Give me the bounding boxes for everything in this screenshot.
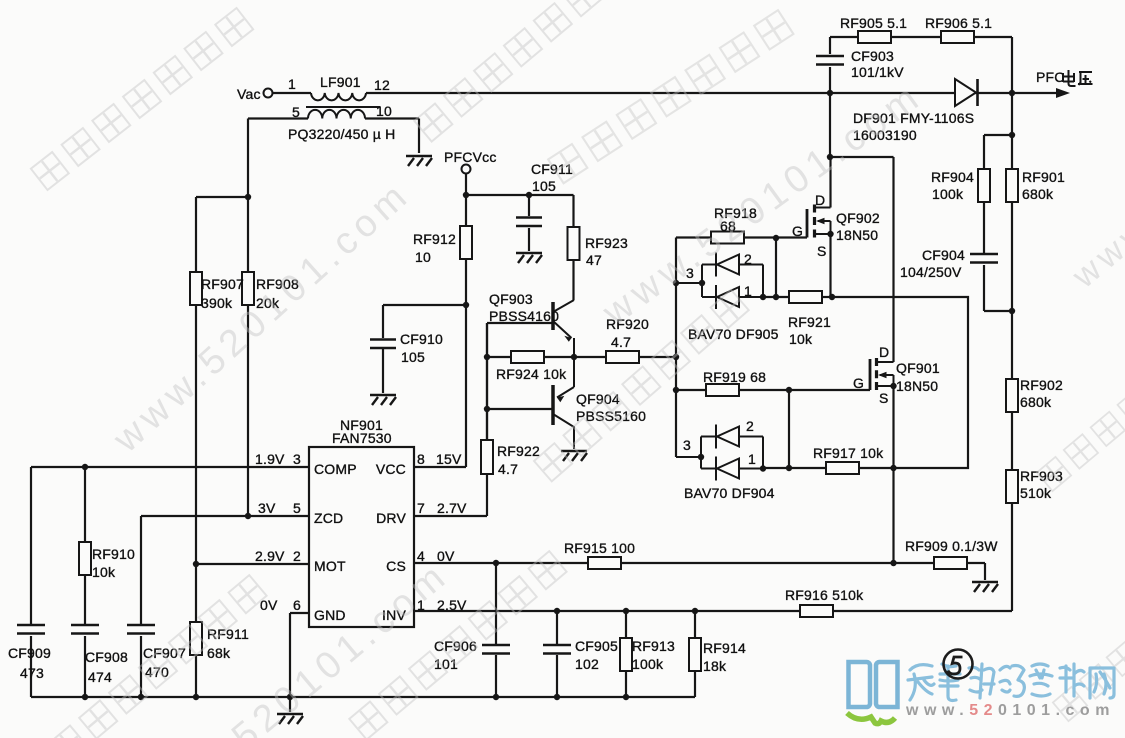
wire drive node column (675, 238, 677, 458)
resistor RF906 (941, 31, 974, 43)
wire QF902 gate column down (775, 238, 777, 298)
wire RF910/CF908 column (84, 467, 86, 624)
wire main line to drain node (829, 93, 831, 157)
wire LF901 pin10 right (365, 117, 419, 119)
wire RF914 column (694, 611, 696, 697)
wire down to QF901 drain (892, 157, 894, 362)
wire GND line pin6 (290, 612, 309, 614)
diode DF901 FMY-1106S (955, 79, 978, 106)
resistor RF908 (242, 272, 254, 305)
wire CF909 column upper (30, 467, 32, 624)
logo url text (906, 702, 1115, 720)
node CF904 branch (1009, 308, 1015, 314)
transistor QF901 18N50 MOSFET (870, 358, 894, 390)
wire drain node to QF901 drain (830, 156, 894, 158)
wire CF910 top (382, 305, 384, 338)
wire RF907 branch link (196, 196, 248, 198)
wire RF920 row to drive node (574, 356, 676, 358)
node RF912/VCC (463, 302, 469, 308)
capacitor CF905 102 (543, 645, 571, 654)
node QF901 source (890, 465, 896, 471)
resistor RF922 (481, 440, 493, 474)
PFC output arrow (1056, 88, 1070, 98)
wire QF902 source down (829, 234, 831, 297)
resistor RF905 (858, 31, 891, 43)
node DF905 pin3 tap (673, 280, 679, 286)
wire VCC line pin8 (414, 466, 466, 468)
wire CF905 column upper (556, 611, 558, 644)
node RF913 gnd (623, 694, 629, 700)
resistor RF919 (706, 384, 739, 396)
node COMP/RF910 (82, 464, 88, 470)
wire DRV line pin7 (414, 515, 487, 517)
wire QF902 source to QF901 source link (832, 297, 968, 468)
wire COMP line pin3 (31, 466, 309, 468)
wire bottom ground bus (31, 696, 695, 698)
wire CS line pin4 (414, 562, 934, 564)
wire QF901 gate column down (788, 390, 790, 468)
wire RF909 to ground (984, 563, 986, 580)
wire CF910 bottom (382, 349, 384, 393)
node DF905 pin3 (699, 280, 705, 286)
node RF904 branch (1009, 132, 1015, 138)
wire QF901 source down to CS line (892, 386, 894, 563)
wire VCC up to RF912 node (465, 305, 467, 467)
wire CF904 branch bottom (984, 310, 1012, 312)
resistor RF921 (789, 291, 822, 303)
resistor RF903 (1006, 470, 1018, 503)
node QF902 drain (827, 154, 833, 160)
wire base bias column (486, 323, 488, 441)
wire node to CF910 (383, 304, 466, 306)
wire CF908 column lower (84, 636, 86, 697)
ground at QF904 collector (561, 451, 587, 461)
node DF904 pin3 (698, 454, 704, 460)
node RF924 left (484, 354, 490, 360)
wire RF904 branch top (984, 134, 1012, 136)
resistor RF917 (826, 462, 859, 474)
resistor RF907 (190, 272, 202, 305)
node CF911 (526, 192, 532, 198)
transistor QF902 18N50 MOSFET (807, 205, 831, 238)
wire QF903 base (487, 322, 553, 324)
wire Vac to LF901 pin1 (273, 92, 312, 94)
resistor RF916 (800, 605, 833, 617)
wire CF907 column upper (140, 516, 142, 624)
wire PFCVcc to CF911/RF923 (466, 194, 574, 196)
diode DF905 BAV70 (676, 253, 763, 310)
wire INV line pin1 through RF916 (414, 610, 1012, 612)
wire RF906 down to output node (1011, 37, 1013, 93)
wire DF904 anodes through RF917 to source node (763, 467, 894, 469)
resistor RF924 (511, 351, 544, 363)
node DF904 anodes (760, 465, 766, 471)
inductor LF901 winding 1-12 (311, 93, 366, 100)
node Vac terminal (264, 89, 273, 98)
node CF908 gnd (82, 694, 88, 700)
wire RF905/RF906 top branch (830, 36, 1012, 38)
node CF906 gnd (493, 694, 499, 700)
wire CF911 bottom (528, 228, 530, 251)
terminal PFCVcc (462, 165, 471, 174)
capacitor CF907 470 (127, 625, 155, 634)
wire CF907 column lower (140, 636, 142, 697)
transistor QF904 PBSS5160 (553, 357, 574, 449)
node RF907/RF908 split (245, 194, 251, 200)
wire CF909 column lower (30, 636, 32, 697)
wire CF906 column upper (495, 563, 497, 644)
wire CF905 column lower (556, 655, 558, 697)
node PFCVcc (463, 192, 469, 198)
wire RF924 row (487, 356, 574, 358)
logo book icon (845, 657, 901, 729)
capacitor CF908 474 (71, 625, 99, 634)
node gate column (773, 294, 779, 300)
resistor RF915 (588, 557, 621, 569)
resistor RF901 (1006, 169, 1018, 202)
node CS/CF906 (493, 560, 499, 566)
node ZCD (245, 513, 251, 519)
node QF902 gate (773, 235, 779, 241)
ground at CF910 (370, 395, 396, 405)
node main line / CF903 (827, 90, 833, 96)
wire CF903 to main line (829, 67, 831, 93)
node GND bus (287, 694, 293, 700)
wire output divider chain RF901/RF902/RF903 (1011, 93, 1013, 611)
node QF904 base (484, 406, 490, 412)
resistor RF920 (606, 351, 639, 363)
wire MOT line pin2 (196, 563, 309, 565)
node emitter junction (571, 354, 577, 360)
ground at LF901 pin10 (406, 156, 432, 166)
wire RF918 row to QF902 gate (676, 236, 807, 238)
wire DF905 anodes to RF921 (763, 296, 790, 298)
node MOT (193, 561, 199, 567)
node RF920/drive (673, 354, 679, 360)
wire ZCD line pin5 (141, 515, 309, 517)
capacitor CF909 473 (17, 625, 45, 634)
wire RF919 row to QF901 gate (676, 389, 870, 391)
wire RF913 column (625, 611, 627, 697)
node CF907 gnd (138, 694, 144, 700)
wire RF907/RF911 column (195, 197, 197, 697)
resistor RF911 (190, 622, 202, 655)
wire PFCVcc down through RF912 (465, 174, 467, 306)
wire main line to PFC output (366, 92, 1058, 94)
wire RF921 to source node (822, 296, 832, 298)
resistor RF904 (978, 169, 990, 202)
resistor RF923 (568, 227, 580, 260)
node INV/RF914 (692, 608, 698, 614)
op-amp U1: IC NF901 FAN7530 (309, 447, 414, 627)
node QF902 source (829, 294, 835, 300)
capacitor CF903 101/1kV (816, 56, 844, 65)
node INV/CF905 (554, 608, 560, 614)
inductor LF901 core (306, 106, 380, 108)
node RF917 left (786, 465, 792, 471)
resistor RF918 (711, 232, 744, 244)
capacitor CF911 105 (516, 218, 542, 227)
wire pin10 to ground (418, 119, 420, 154)
resistor RF914 (689, 638, 701, 671)
resistor RF909 (934, 557, 967, 569)
wire to CF903 (829, 37, 831, 54)
wire LF901 pin5 left (248, 117, 308, 119)
wire CF911 top (528, 195, 530, 216)
node CS/source (890, 560, 896, 566)
resistor RF910 (79, 542, 91, 575)
capacitor CF906 101 (482, 645, 510, 654)
diode DF904 BAV70 (676, 425, 763, 481)
wire pin5 down to ZCD (247, 119, 249, 517)
node PFC output (1009, 90, 1015, 96)
ground at IC GND (277, 714, 303, 724)
inductor LF901 winding 5-10 (308, 110, 365, 119)
wire QF902 drain up (829, 157, 831, 208)
capacitor CF910 105 (370, 340, 396, 349)
node QF901 gate (786, 387, 792, 393)
node QF901 source stub (890, 383, 896, 389)
wire CF904 down (983, 265, 985, 311)
logo circled 5 (940, 646, 978, 684)
wire DRV up through RF922 (486, 323, 488, 516)
ground at CF911 (516, 253, 542, 263)
node RF919 left (673, 387, 679, 393)
wire RF904 to CF904 (983, 135, 985, 253)
ground at RF909 (972, 582, 998, 592)
node RF911 gnd (193, 694, 199, 700)
resistor RF912 (460, 226, 472, 259)
wire CF906 column lower (495, 655, 497, 697)
node QF902 source stub (827, 231, 833, 237)
wire GND down to ground (289, 613, 291, 712)
wire RF923 column to QF903 collector (572, 195, 574, 300)
resistor RF902 (1006, 379, 1018, 412)
text PFC电压 label hanzi (1063, 70, 1093, 86)
node DF905 anodes (760, 294, 766, 300)
wire QF904 base (487, 408, 553, 410)
wire RF909 right (966, 562, 985, 564)
node INV/RF913 (623, 608, 629, 614)
capacitor CF904 104/250V (970, 254, 998, 263)
resistor RF913 (620, 638, 632, 671)
transistor QF903 PBSS4160 (553, 300, 574, 357)
node CF905 gnd (554, 694, 560, 700)
